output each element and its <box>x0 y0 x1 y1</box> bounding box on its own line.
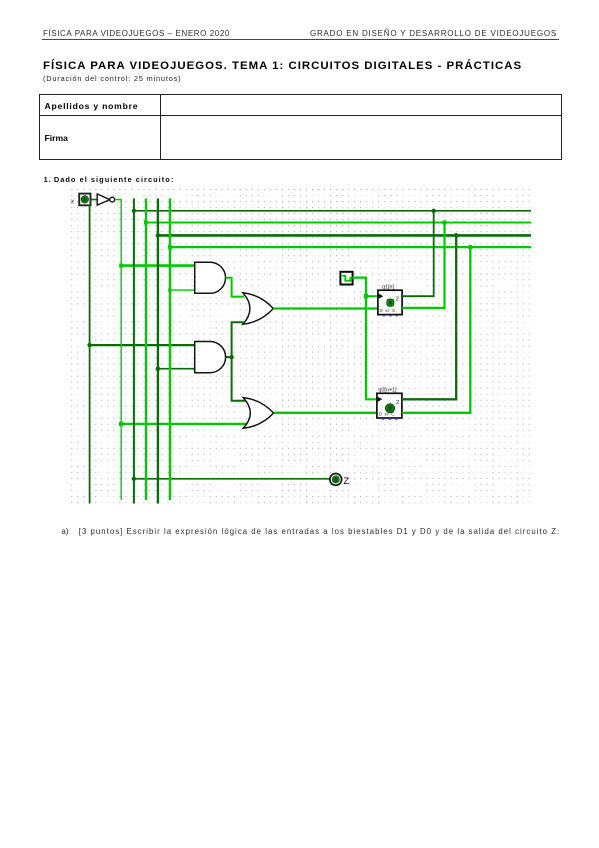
wire to output Z <box>134 478 330 480</box>
OR gate O2 <box>243 398 273 429</box>
flip-flop D1 <box>378 290 402 316</box>
wire bus q0 horizontal <box>158 234 531 237</box>
wire x' vertical from pin down <box>89 205 91 504</box>
wire AND2 output <box>226 356 232 358</box>
wire inverter output <box>115 200 121 501</box>
wire AND2 bottom input <box>158 368 195 370</box>
svg-text:D sr C: D sr C <box>379 412 396 417</box>
junction q0 bus <box>156 233 161 238</box>
svg-text:D sr C: D sr C <box>379 308 396 313</box>
junction FF1 Q bus <box>432 209 436 213</box>
exercise 1 intro <box>44 175 175 184</box>
flip-flop D0 <box>377 393 402 420</box>
svg-text:2: 2 <box>396 400 399 406</box>
wire clock to flipflops <box>353 278 377 400</box>
wire bus q1 horizontal <box>134 210 531 212</box>
clock CLK <box>340 272 352 285</box>
subtitle duration <box>43 74 181 83</box>
svg-text:2: 2 <box>396 296 399 302</box>
wire FF0 Q to bus q0 <box>402 235 456 399</box>
wire pin to inverter <box>91 199 98 201</box>
input pin X <box>79 194 90 206</box>
wire OR1 bottom input <box>232 322 247 400</box>
page header right <box>300 29 557 38</box>
wire AND1 top input <box>121 264 195 267</box>
junction x' to AND2 top <box>87 343 91 347</box>
wire AND1 output to OR1 <box>226 278 245 297</box>
wire vertical q1' feedback <box>145 198 147 500</box>
wire FF0 Q' to bus q0' <box>402 247 470 413</box>
junction q0' to AND1 bottom <box>168 288 171 291</box>
wire AND1 bottom input <box>170 289 195 291</box>
title <box>43 60 522 72</box>
wire OR2 output to FF0 D <box>274 412 377 414</box>
wire FF1 Q' to bus q1' <box>402 223 444 308</box>
wire bus q1' horizontal <box>146 221 531 223</box>
junction notout to OR2 bottom <box>119 422 123 426</box>
wire OR1 output to FF1 D <box>273 307 378 309</box>
wire vertical q1 feedback <box>133 198 135 503</box>
junction FF0 Q bus <box>454 233 459 238</box>
wire vertical q0' feedback <box>169 198 171 500</box>
header rule <box>42 39 559 40</box>
page header left <box>43 29 230 38</box>
wire vertical q0 feedback <box>157 198 159 503</box>
junction q0' bus <box>168 245 172 249</box>
junction AND2 out <box>229 355 233 359</box>
junction FF0 Q' bus <box>468 245 472 249</box>
AND gate A1 <box>195 262 226 293</box>
wire OR2 bottom input <box>121 423 246 425</box>
junction q1 to Z <box>132 477 136 481</box>
inverter U1 <box>97 194 114 205</box>
output pin Z <box>330 474 342 486</box>
svg-text:Z: Z <box>343 476 349 487</box>
junction clock FF1 <box>364 294 368 298</box>
svg-text:x: x <box>70 199 75 206</box>
junction q1 bus <box>132 209 136 213</box>
grid dot background <box>69 187 532 505</box>
question a) <box>62 527 69 536</box>
wire AND2 top input <box>90 344 196 346</box>
wire clock branch FF1 <box>366 295 378 297</box>
junction q1' bus <box>144 221 148 225</box>
wire bus q0' horizontal <box>170 246 531 248</box>
junction notout to AND1 top <box>119 264 123 268</box>
OR gate O1 <box>243 293 273 325</box>
name/signature table <box>39 94 562 161</box>
AND gate A2 <box>195 342 226 373</box>
wire FF1 Q to bus q1 <box>402 211 434 296</box>
junction FF1 Q' bus <box>443 221 447 225</box>
junction q0 to AND2 bottom <box>156 366 161 371</box>
